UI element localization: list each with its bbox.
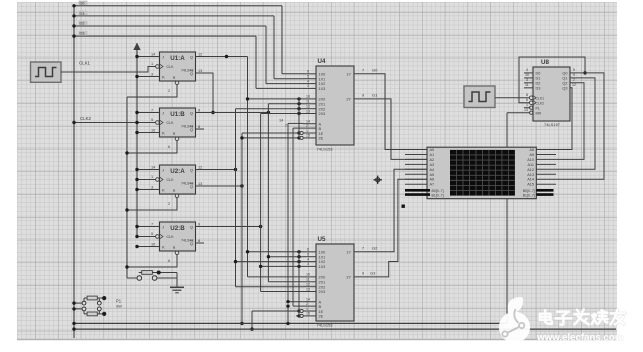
wire U8 Q0 to matrix A14 [556,73,604,179]
flip-flop U1:B 74LS73 [160,108,196,137]
svg-text:13: 13 [198,69,202,73]
resistor RP1 top [84,296,106,300]
resistor RP2 bottom [84,312,106,316]
svg-text:R: R [173,132,176,136]
svg-text:1: 1 [306,307,308,311]
svg-text:9: 9 [362,94,364,98]
matrix right pin stubs [536,150,556,185]
svg-text:2X2: 2X2 [319,285,326,289]
svg-text:4: 4 [526,68,528,72]
wire U1:B J input stub [135,111,159,114]
svg-text:U5: U5 [318,236,326,243]
svg-text:2: 2 [285,123,287,127]
svg-text:2X1: 2X1 [319,280,326,284]
svg-text:G3: G3 [370,271,376,276]
wire select net B (U4.B to U5.B) [293,128,303,306]
svg-text:74LS73: 74LS73 [181,238,193,242]
svg-text:12: 12 [198,165,202,169]
wire Q2 net (U2:A Q to U4/U5) [196,107,304,287]
wire U8 Q2 to matrix A10 [556,83,584,160]
grid bottom border [17,339,617,341]
svg-text:5: 5 [573,68,575,72]
svg-text:8: 8 [526,93,528,97]
flip-flop U2:A 74LS73 [160,165,196,194]
wire junction vertical at U4 inputs [298,98,300,139]
svg-text:2: 2 [573,78,575,82]
svg-text:5: 5 [307,75,309,79]
label D3 [79,31,88,35]
clock generator CLK1 [31,62,62,82]
wire CLK1 to U1:A clock [61,67,156,73]
wire U2:A reset to reset net [125,198,177,212]
svg-text:B0[0..7]: B0[0..7] [523,189,535,193]
svg-text:9: 9 [198,222,200,226]
svg-text:7: 7 [362,69,364,73]
svg-text:1: 1 [526,103,528,107]
svg-text:B1[0..7]: B1[0..7] [432,193,444,197]
svg-text:14: 14 [279,119,283,123]
svg-text:J: J [162,224,164,229]
svg-text:A0: A0 [430,148,435,152]
svg-text:J: J [162,110,164,115]
svg-text:Q: Q [190,110,193,115]
enable bubbles U5 1E/2E [300,309,303,317]
wire U1:B reset to reset net [125,141,177,155]
wire top net D1 [72,14,303,79]
svg-text:P1: P1 [116,299,122,304]
svg-text:1Y: 1Y [346,251,351,255]
svg-text:7: 7 [151,222,153,226]
svg-text:Q: Q [190,167,193,172]
svg-text:1X3: 1X3 [319,265,326,269]
wire junction vertical at U5 inputs [298,251,300,317]
svg-text:Q3: Q3 [562,86,567,90]
svg-text:2E: 2E [319,315,324,319]
wire top net D0 [72,4,303,74]
svg-text:9: 9 [198,108,200,112]
svg-text:10: 10 [151,128,155,132]
svg-text:J: J [162,54,164,59]
svg-text:1: 1 [151,62,153,66]
svg-text:12: 12 [572,83,576,87]
svg-text:CLK1: CLK1 [79,61,91,66]
svg-text:1X3: 1X3 [319,87,326,91]
svg-text:Q: Q [190,54,193,59]
wire U8 D input stubs [524,73,533,88]
resistor R1 (reset pull) [139,271,177,275]
svg-text:3: 3 [151,72,153,76]
svg-text:13: 13 [306,287,310,291]
svg-text:B0[0..7]: B0[0..7] [432,189,444,193]
svg-text:9: 9 [362,272,364,276]
svg-text:13: 13 [306,109,310,113]
svg-text:74LS73: 74LS73 [181,68,193,72]
svg-text:A15: A15 [527,183,534,187]
svg-text:D3: D3 [80,31,85,36]
svg-text:U4: U4 [318,58,326,65]
origin cross marker [374,176,382,184]
svg-text:12: 12 [306,283,310,287]
svg-text:6: 6 [307,70,309,74]
wire U4 input pin stubs [303,74,316,138]
svg-text:G0: G0 [372,68,378,73]
svg-text:2: 2 [306,302,308,306]
label D2 [79,21,88,25]
wire U5 1E to bottom rail [250,309,300,331]
svg-text:1X1: 1X1 [319,255,326,259]
pin numbers U5 left [306,248,310,316]
svg-text:SW: SW [116,305,122,309]
svg-text:1: 1 [151,175,153,179]
svg-text:9: 9 [573,73,575,77]
svg-text:D0: D0 [80,0,86,5]
svg-text:K: K [162,130,165,135]
wire Q3 net (U2:B Q to U4/U5) [196,112,304,292]
svg-text:10: 10 [525,73,529,77]
svg-text:U2:B: U2:B [170,225,185,232]
svg-text:U2:A: U2:A [170,168,185,175]
svg-text:5: 5 [307,253,309,257]
svg-text:A9: A9 [529,153,534,157]
svg-text:B1[0..7]: B1[0..7] [523,193,535,197]
wire U2:A K input stub [135,188,159,191]
bus labels right [523,189,535,198]
svg-text:K: K [162,244,165,249]
wire top net D3 [72,34,303,88]
label D0 [79,1,88,5]
svg-text:A3: A3 [430,163,435,167]
svg-text:Q1: Q1 [562,77,567,81]
wire U8 Q3 to matrix A8 [556,88,572,150]
svg-text:15: 15 [306,312,310,316]
pin numbers U8 left [524,68,529,112]
svg-text:CLK: CLK [167,178,175,182]
svg-text:10: 10 [151,242,155,246]
wire U2:B J input stub [135,225,159,228]
wire U4 2Y to matrix A2 [354,99,427,159]
svg-text:1E: 1E [319,310,324,314]
svg-text:A2: A2 [430,158,435,162]
svg-text:www.elecfans.com: www.elecfans.com [536,333,624,344]
svg-text:R: R [173,246,176,250]
svg-text:K: K [162,74,165,79]
svg-text:D3: D3 [536,86,541,90]
svg-text:6: 6 [307,248,309,252]
wire U2:A Qbar to 1E net [196,184,244,187]
LED dot matrix display [427,147,536,199]
svg-text:A14: A14 [527,178,534,182]
wire reset net vertical [126,97,128,278]
svg-text:74LS73: 74LS73 [181,181,193,185]
svg-text:14: 14 [306,298,310,302]
watermark chinese char shao [592,310,608,324]
svg-text:1E: 1E [319,132,324,136]
wire ground rail A [72,322,507,325]
svg-text:2: 2 [168,89,170,93]
svg-text:U8: U8 [541,59,549,66]
svg-text:CLK2: CLK2 [80,116,92,121]
wire U5 2E stub [296,314,301,317]
svg-text:13: 13 [524,108,528,112]
svg-text:D2: D2 [536,81,541,85]
svg-text:A1: A1 [430,153,435,157]
svg-text:1X2: 1X2 [319,82,326,86]
pin numbers U4 left [306,70,310,138]
wire U2:A CLK stub [135,178,155,181]
pin numbers U8 right [572,68,576,87]
svg-text:6: 6 [168,259,170,263]
svg-text:G1: G1 [372,93,378,98]
bus pins B0/B1 left [405,190,430,194]
watermark chinese char dian [540,310,552,323]
svg-text:10: 10 [306,273,310,277]
reset bubble U2:A [175,194,179,198]
svg-text:12: 12 [198,52,202,56]
svg-text:D2: D2 [80,21,85,26]
wire U1:A reset to reset net [127,85,177,97]
svg-text:2Y: 2Y [346,276,351,280]
svg-text:5: 5 [151,232,153,236]
node stray junction [402,205,405,208]
wire U8 Q1 to matrix A12 [556,78,595,169]
svg-text:A8: A8 [529,148,534,152]
svg-text:1Y: 1Y [346,73,351,77]
ground symbol [170,287,184,293]
svg-text:2X3: 2X3 [319,112,326,116]
svg-text:4: 4 [307,257,309,261]
wire U1:B K input stub [135,131,159,134]
svg-text:8: 8 [198,125,200,129]
svg-text:D1: D1 [80,10,85,15]
clock bubble U1:B [156,121,160,125]
svg-text:A12: A12 [527,168,534,172]
connector P1 button [72,298,101,314]
svg-text:Q: Q [190,224,193,229]
svg-text:1X0: 1X0 [319,72,326,76]
clock bubble U1:A [156,65,160,69]
wire Q1 net (U1:B Q to U4/U5) [196,102,304,282]
svg-text:8: 8 [198,239,200,243]
wire U1:A J input stub [135,55,159,58]
svg-text:CLK: CLK [167,235,175,239]
svg-text:2: 2 [306,124,308,128]
wire main left vertical net [73,6,75,338]
svg-text:1: 1 [306,129,308,133]
svg-text:11: 11 [306,100,310,104]
svg-text:K: K [162,187,165,192]
watermark chinese char fa [574,310,588,325]
svg-text:3: 3 [307,262,309,266]
clock bubbles U8 [529,96,533,105]
enable bubbles U4 1E/2E [300,131,303,139]
wire U1:A K input stub [135,75,159,78]
multiplexer U5 74LS153 [316,244,354,321]
reset bubble U2:B [175,251,179,255]
svg-text:A7: A7 [430,183,435,187]
svg-text:A11: A11 [528,163,534,167]
reset bubble U1:A [175,81,179,85]
node resistor-switch junction [157,271,161,275]
svg-text:14: 14 [151,165,155,169]
wire U5 1Y to matrix A4 [354,169,427,252]
wire Q0 net (U1:A Q to U4/U5) [196,55,304,277]
svg-text:1X1: 1X1 [319,77,326,81]
wire U2:A J input stub [135,168,159,171]
svg-text:6: 6 [168,145,170,149]
svg-text:1X0: 1X0 [319,250,326,254]
wire J/K tie vertical net [136,50,138,237]
wire U4 1Y to matrix A0 [354,74,427,150]
svg-text:R: R [173,76,176,80]
svg-text:74LS197: 74LS197 [544,122,561,127]
wire bottom rail B [72,327,616,330]
svg-text:1X2: 1X2 [319,260,326,264]
switch SW reset button [127,276,177,281]
watermark chinese char zi [556,312,572,325]
svg-text:14: 14 [306,120,310,124]
wire U8 MR from rail vertical [507,113,530,324]
svg-text:U1:B: U1:B [170,111,185,118]
svg-text:2X1: 2X1 [319,102,326,106]
svg-text:2Y: 2Y [346,98,351,102]
svg-text:D1: D1 [536,77,541,81]
wire switch to ground [176,273,178,288]
wire U1:B Qbar stub [196,128,205,130]
watermark chinese char you [611,310,626,325]
svg-text:A4: A4 [430,168,435,172]
matrix pin labels left A0-A7 [430,148,435,187]
clock bubble U2:A [156,178,160,182]
wire generator to U8 CLK1 [495,97,530,99]
svg-text:A10: A10 [527,158,534,162]
svg-text:2: 2 [168,202,170,206]
svg-text:74LS153: 74LS153 [317,147,334,152]
svg-text:15: 15 [306,134,310,138]
svg-text:14: 14 [151,52,155,56]
svg-text:B: B [319,304,322,309]
svg-text:11: 11 [306,278,310,282]
flip-flop U2:B 74LS73 [160,222,196,251]
wire top net D2 [72,24,303,83]
wire select A net to rail [286,300,289,323]
svg-text:CLK1: CLK1 [536,96,545,100]
svg-text:74LS73: 74LS73 [181,124,193,128]
wire U2:B K input stub [135,245,159,248]
svg-text:CLK: CLK [167,121,175,125]
svg-text:5: 5 [151,118,153,122]
wire U1:A Qbar to node [196,73,215,114]
svg-text:2X0: 2X0 [319,276,326,280]
svg-text:Q2: Q2 [562,81,567,85]
svg-text:A13: A13 [527,173,534,177]
svg-text:J: J [162,167,164,172]
svg-text:R: R [173,189,176,193]
svg-text:10: 10 [306,95,310,99]
svg-text:3: 3 [151,185,153,189]
svg-text:D0: D0 [536,72,541,76]
counter U8 74LS197 [533,67,570,121]
svg-text:A5: A5 [430,173,435,177]
svg-text:3: 3 [526,78,528,82]
watermark elecfans logo [499,297,530,343]
svg-text:7: 7 [151,108,153,112]
svg-text:11: 11 [525,83,529,87]
svg-text:3: 3 [307,84,309,88]
wire U2:B CLK stub [135,235,155,238]
svg-text:A6: A6 [430,178,435,182]
label D1 [79,11,88,15]
svg-text:6: 6 [526,98,528,102]
svg-text:4: 4 [307,79,309,83]
svg-text:13: 13 [198,182,202,186]
svg-text:12: 12 [306,105,310,109]
clock generator for U8 [464,86,495,108]
wire U2:B reset to reset net [125,255,177,269]
svg-text:2X2: 2X2 [319,107,326,111]
bus pins B0/B1 right [536,190,553,194]
wire CLK2 net [72,121,155,124]
flip-flop U1:A 74LS73 [160,52,196,81]
svg-text:CLK: CLK [167,65,175,69]
clock bubble U2:B [156,235,160,239]
multiplexer U4 74LS153 [316,66,354,145]
svg-text:7: 7 [362,247,364,251]
wire U5 input pin stubs [303,252,316,316]
svg-text:B: B [319,126,322,131]
reset bubble U1:B [175,137,179,141]
svg-text:Q0: Q0 [562,72,567,76]
wire U5 2Y to matrix A6 [354,179,427,277]
wire U2:B Qbar stub [196,242,205,244]
svg-text:2X0: 2X0 [319,98,326,102]
wire U8 PL stub [524,107,530,109]
bus labels left [432,189,444,198]
svg-text:2X3: 2X3 [319,290,326,294]
svg-text:MR: MR [536,111,542,115]
wire enable net 1E/2E of U4 to ground rail [240,131,300,325]
svg-text:2E: 2E [319,137,324,141]
enable bubbles U8 PL/MR [530,106,533,114]
svg-text:G2: G2 [372,246,378,251]
svg-text:U1:A: U1:A [170,55,185,62]
matrix pin labels right A8-A15 [527,148,534,187]
matrix left pin stubs [405,150,427,185]
svg-text:PL: PL [536,106,540,110]
svg-text:CLK2: CLK2 [536,101,545,105]
wire U8 Q0 feedback to CLK2 [519,57,587,103]
power VCC arrow [133,43,140,57]
wire select net A (U4.A to U5.A) [288,123,303,301]
